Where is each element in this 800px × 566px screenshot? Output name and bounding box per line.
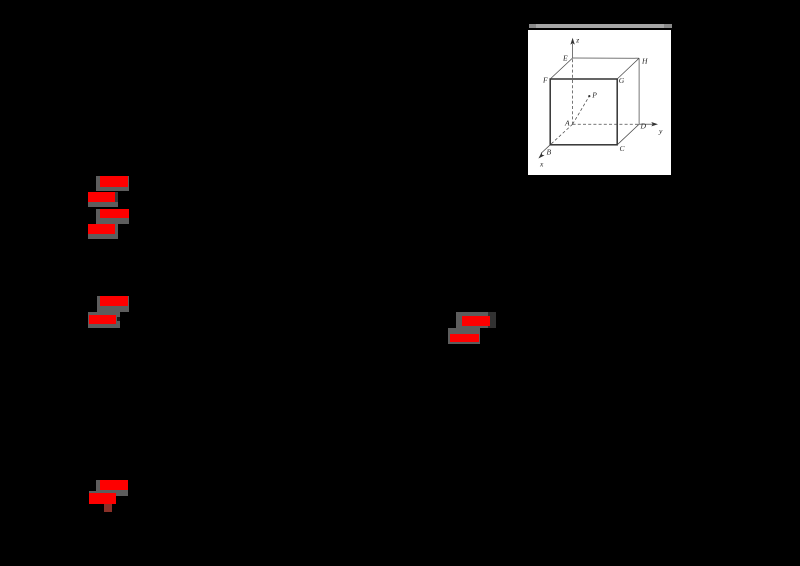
svg-text:B: B xyxy=(546,147,551,156)
answer cluster 4 : red box line 2 xyxy=(89,493,116,503)
answer cluster 1 : red box line 3 xyxy=(100,209,129,219)
answer cluster 1 : red box line 2 xyxy=(88,192,116,202)
x axis solid below B xyxy=(541,145,550,154)
answer cluster 4 : gray band xyxy=(89,491,129,496)
figure scrollbar left cap xyxy=(529,24,537,28)
z axis arrowhead xyxy=(570,38,574,45)
svg-text:G: G xyxy=(618,76,624,85)
answer cluster 3 : red box line 2 xyxy=(450,334,480,342)
answer cluster 4 : dark red tail xyxy=(104,504,112,512)
front face FGCB xyxy=(550,79,617,145)
edge G-H xyxy=(617,58,639,79)
point P dot xyxy=(588,95,590,97)
answer cluster 1 : gray shadow line 1 xyxy=(96,176,129,191)
answer cluster 3 : gray shadow line 2 xyxy=(448,328,480,344)
answer cluster 4 : gray shadow line 1 xyxy=(96,480,128,491)
svg-text:C: C xyxy=(619,144,625,153)
y axis solid from D xyxy=(639,123,654,125)
answer cluster 2 : gray shadow line 1 xyxy=(97,296,129,312)
hidden edge A-B dashed xyxy=(550,124,572,145)
edge C-D xyxy=(617,124,639,145)
svg-text:F: F xyxy=(542,75,548,84)
edge E-F xyxy=(550,58,572,79)
answer cluster 1 : red box line 4 xyxy=(88,224,116,234)
figure scrollbar xyxy=(529,24,673,28)
answer cluster 2 : gray shadow line 2 xyxy=(88,312,121,328)
svg-text:y: y xyxy=(657,126,662,135)
x axis arrowhead xyxy=(538,152,544,158)
answer cluster 1 : gray shadow line 3 xyxy=(96,209,129,224)
segment A-P dashed xyxy=(572,96,589,124)
answer cluster 2 : red box line 2 xyxy=(89,315,116,324)
answer cluster 3 : dark gray block right xyxy=(488,312,496,328)
edge E-H (top back) xyxy=(572,57,638,59)
answer cluster 1 : dark sliver line 2 xyxy=(115,192,118,202)
figure scrollbar right cap xyxy=(664,24,672,28)
edge H-D (right back vertical) xyxy=(638,58,640,124)
answer cluster 2 : dark spot line 2 xyxy=(117,317,120,321)
svg-text:x: x xyxy=(539,159,544,168)
figure white panel xyxy=(528,30,671,175)
svg-text:D: D xyxy=(639,121,646,130)
answer cluster 4 : red box line 1 xyxy=(100,480,128,490)
svg-text:A: A xyxy=(564,118,570,127)
svg-text:E: E xyxy=(562,53,568,62)
svg-text:H: H xyxy=(640,56,647,65)
hidden edge A-D dashed xyxy=(572,123,638,125)
svg-text:z: z xyxy=(575,35,579,44)
answer cluster 2 : red box line 1 xyxy=(100,296,128,306)
cube figure drawing xyxy=(528,30,671,175)
answer cluster 3 : gray shadow line 1 xyxy=(456,312,488,328)
z axis solid above E xyxy=(571,43,573,57)
answer cluster 1 : gray shadow line 2 xyxy=(88,192,118,207)
answer cluster 1 : gray shadow line 4 xyxy=(88,224,119,239)
svg-text:P: P xyxy=(591,90,597,99)
answer cluster 3 : red box line 1 xyxy=(462,316,490,326)
hidden edge E-A dashed xyxy=(571,59,573,124)
answer cluster 1 : red box line 1 xyxy=(100,176,129,187)
y axis arrowhead xyxy=(651,122,658,126)
